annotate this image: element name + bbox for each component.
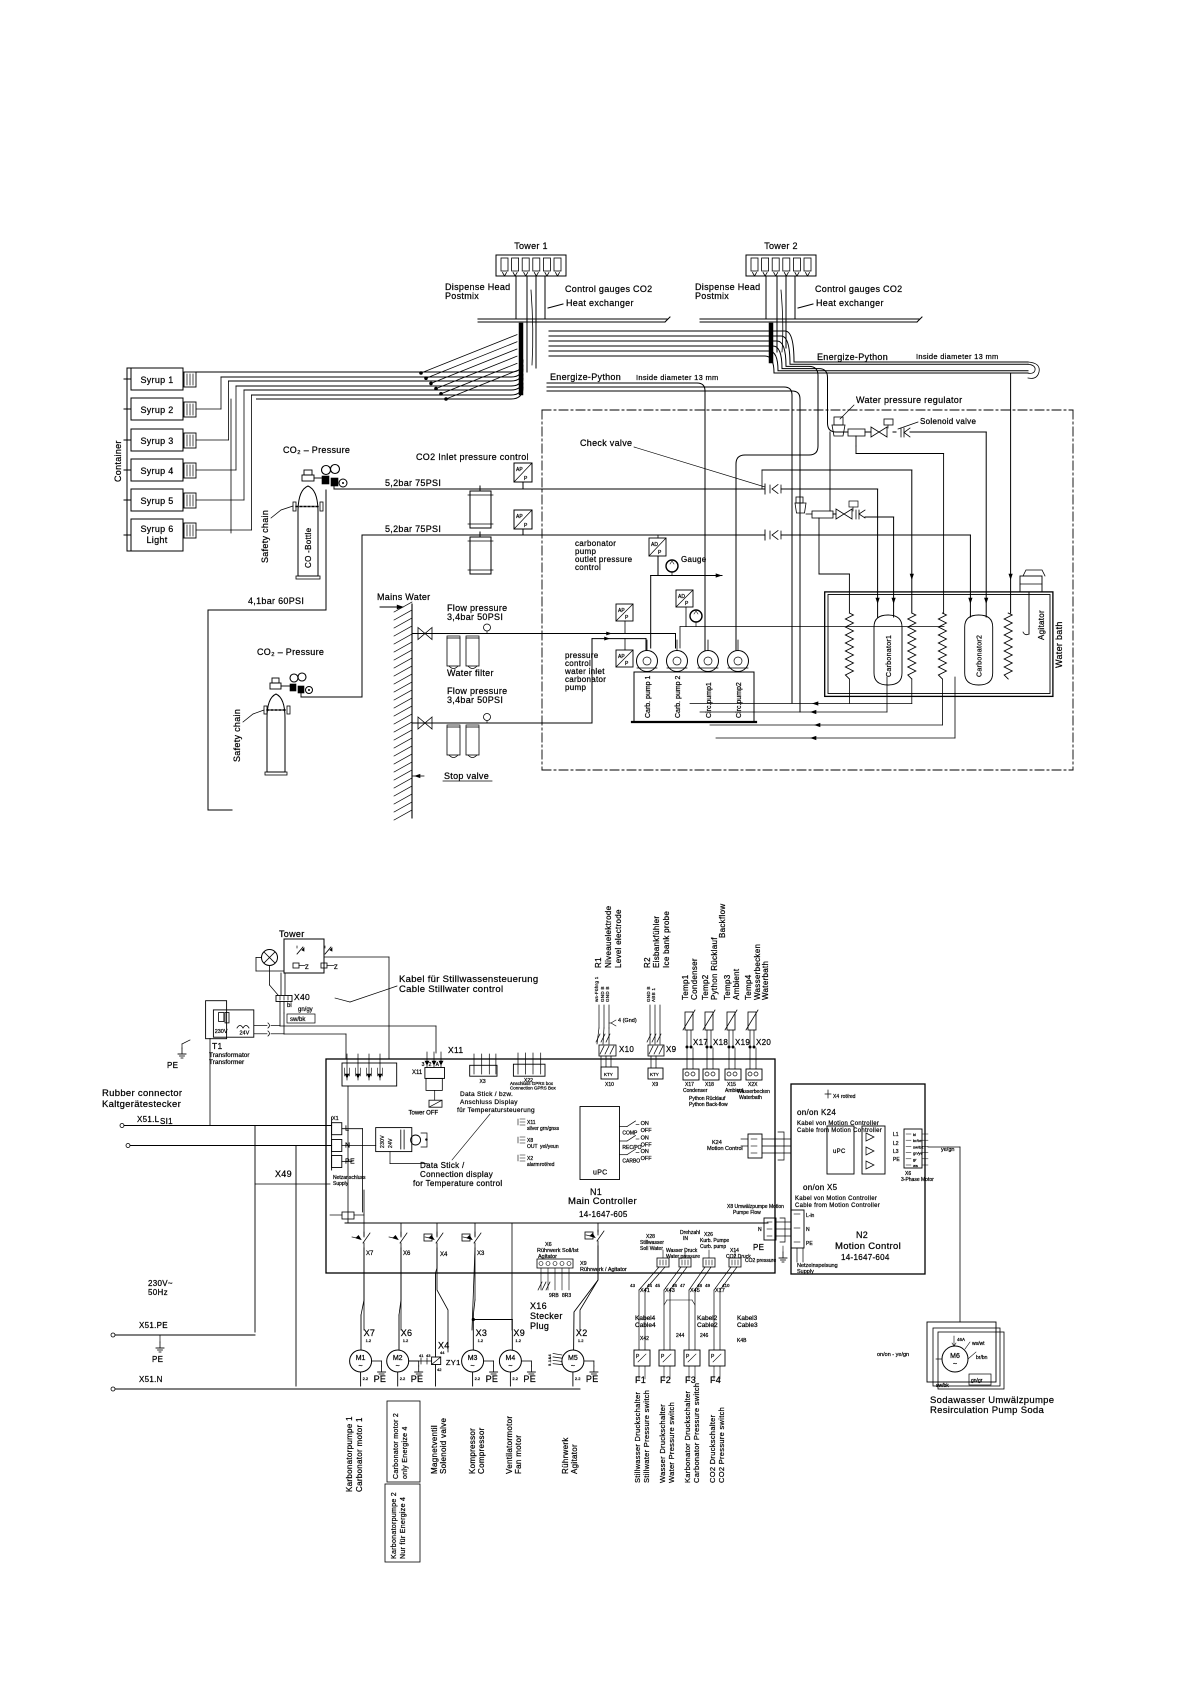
svg-text:Control gauges CO2: Control gauges CO2 (565, 284, 652, 294)
svg-text:Carb. pump 1: Carb. pump 1 (645, 675, 652, 718)
svg-text:Control gauges CO2: Control gauges CO2 (815, 284, 902, 294)
svg-text:KTY: KTY (650, 1072, 659, 1077)
svg-text:AD: AD (678, 594, 685, 600)
svg-text:ON: ON (641, 1121, 649, 1127)
svg-text:246: 246 (700, 1333, 709, 1339)
svg-text:X2X: X2X (748, 1082, 758, 1088)
svg-text:rot/red: rot/red (540, 1162, 555, 1168)
svg-text:4,1bar 60PSI: 4,1bar 60PSI (248, 596, 304, 606)
svg-text:~: ~ (571, 1363, 575, 1370)
svg-text:230V~: 230V~ (148, 1279, 173, 1288)
svg-text:1.2: 1.2 (403, 1338, 409, 1343)
svg-text:X17: X17 (693, 1038, 708, 1047)
svg-text:AP: AP (516, 467, 523, 473)
svg-text:Main Controller: Main Controller (568, 1196, 637, 1207)
svg-text:X51.L: X51.L (137, 1115, 160, 1124)
svg-text:M3: M3 (468, 1355, 478, 1362)
svg-text:Temp4: Temp4 (744, 974, 753, 1000)
svg-text:Supply: Supply (333, 1181, 349, 1187)
svg-text:ABB 1: ABB 1 (651, 988, 656, 1002)
svg-text:P: P (524, 476, 528, 482)
svg-text:Solenoid valve: Solenoid valve (439, 1418, 448, 1474)
svg-text:CO2 pressure: CO2 pressure (745, 1258, 776, 1264)
svg-text:L: L (345, 1126, 349, 1133)
svg-text:X42: X42 (640, 1336, 649, 1342)
svg-text:ye/gn: ye/gn (941, 1147, 954, 1153)
svg-text:AP: AP (618, 608, 625, 614)
svg-text:Gauge: Gauge (681, 555, 707, 564)
svg-text:Safety chain: Safety chain (232, 709, 242, 762)
svg-text:~: ~ (396, 1363, 400, 1370)
svg-text:Nur für Energize 4: Nur für Energize 4 (400, 1497, 407, 1559)
svg-text:Inside diameter 13 mm: Inside diameter 13 mm (636, 373, 719, 382)
svg-text:Kompressor: Kompressor (468, 1428, 477, 1474)
svg-text:gr: gr (913, 1157, 917, 1162)
svg-text:X45: X45 (690, 1288, 700, 1294)
svg-text:Syrup 3: Syrup 3 (140, 436, 173, 446)
svg-text:Agitator: Agitator (1037, 610, 1046, 640)
svg-text:X4: X4 (438, 1341, 450, 1351)
svg-text:X16: X16 (530, 1301, 547, 1311)
svg-text:Z: Z (305, 965, 309, 971)
svg-text:PE: PE (523, 1374, 536, 1384)
svg-text:L-in: L-in (806, 1213, 815, 1219)
svg-text:Kabel3: Kabel3 (737, 1315, 758, 1322)
svg-text:X6: X6 (403, 1251, 411, 1257)
svg-text:Data Stick / bzw.: Data Stick / bzw. (460, 1091, 513, 1098)
svg-text:X10: X10 (619, 1045, 634, 1054)
svg-text:X17: X17 (715, 1288, 725, 1294)
svg-text:X3: X3 (476, 1328, 488, 1338)
svg-text:Cable4: Cable4 (635, 1322, 656, 1329)
svg-text:Tower 2: Tower 2 (764, 241, 798, 251)
svg-text:P: P (658, 550, 662, 556)
svg-text:REC/PO: REC/PO (622, 1145, 641, 1151)
svg-text:9RB: 9RB (549, 1293, 559, 1299)
svg-text:M4: M4 (506, 1355, 516, 1362)
svg-text:yel/yeun: yel/yeun (540, 1144, 559, 1150)
svg-text:Condenser: Condenser (690, 958, 699, 1000)
svg-text:N: N (758, 1227, 762, 1233)
svg-text:GND B: GND B (605, 986, 610, 1002)
svg-text:Temp2: Temp2 (701, 974, 710, 1000)
svg-text:sw/bk: sw/bk (913, 1144, 923, 1149)
svg-text:X10: X10 (605, 1082, 614, 1088)
svg-text:Motion Control: Motion Control (707, 1146, 743, 1152)
svg-text:PE: PE (753, 1243, 764, 1252)
svg-text:Tower OFF: Tower OFF (409, 1111, 439, 1117)
svg-text:Water pressure: Water pressure (666, 1254, 700, 1260)
svg-text:3-Phase Motor: 3-Phase Motor (901, 1177, 934, 1183)
svg-text:ZY1: ZY1 (446, 1358, 461, 1367)
svg-text:2.2: 2.2 (363, 1376, 369, 1381)
svg-text:Agitator: Agitator (570, 1444, 579, 1474)
svg-text:PE: PE (411, 1374, 424, 1384)
svg-text:X40: X40 (294, 992, 310, 1002)
svg-text:Karbonator Druckschalter: Karbonator Druckschalter (683, 1391, 692, 1483)
svg-text:Circ.pump2: Circ.pump2 (736, 682, 743, 718)
svg-text:1.2: 1.2 (515, 1338, 521, 1343)
svg-text:Solenoid valve: Solenoid valve (920, 417, 976, 426)
svg-text:Syrup 5: Syrup 5 (140, 496, 173, 506)
svg-text:PE: PE (345, 1159, 355, 1166)
svg-text:R2: R2 (643, 957, 652, 968)
svg-text:T1: T1 (212, 1041, 223, 1051)
svg-text:X19: X19 (735, 1038, 750, 1047)
svg-text:Kaltgerätestecker: Kaltgerätestecker (102, 1099, 181, 1110)
svg-text:Waterbath: Waterbath (761, 961, 770, 1000)
svg-text:43: 43 (630, 1283, 636, 1288)
svg-text:230V: 230V (215, 1029, 228, 1035)
svg-text:X2: X2 (576, 1328, 588, 1338)
svg-text:M6: M6 (950, 1353, 960, 1360)
svg-text:Condenser: Condenser (683, 1088, 708, 1094)
svg-text:Carbonator Pressure switch: Carbonator Pressure switch (692, 1383, 701, 1483)
svg-text:R1: R1 (594, 957, 603, 968)
svg-text:X4: X4 (833, 1094, 839, 1100)
svg-text:Cable Stillwater control: Cable Stillwater control (399, 984, 503, 995)
svg-text:~: ~ (953, 1361, 957, 1368)
svg-text:ws: ws (913, 1163, 918, 1168)
svg-text:CO2 Pressure switch: CO2 Pressure switch (717, 1407, 726, 1483)
svg-text:X3: X3 (477, 1251, 485, 1257)
svg-text:Tower 1: Tower 1 (514, 241, 548, 251)
svg-text:~: ~ (508, 1363, 512, 1370)
svg-text:X11: X11 (448, 1045, 463, 1055)
svg-text:X7: X7 (364, 1328, 376, 1338)
svg-text:Supply: Supply (797, 1269, 814, 1275)
svg-text:gn/gy: gn/gy (298, 1007, 313, 1013)
svg-text:Connection display: Connection display (420, 1170, 493, 1179)
svg-text:Cable from Motion Controller: Cable from Motion Controller (795, 1203, 880, 1209)
svg-text:Syrup 6: Syrup 6 (140, 524, 173, 534)
svg-text:Anschluss Display: Anschluss Display (460, 1099, 518, 1106)
svg-text:2.2: 2.2 (400, 1376, 406, 1381)
svg-text:3,4bar 50PSI: 3,4bar 50PSI (447, 695, 503, 705)
svg-text:Mains Water: Mains Water (377, 592, 430, 602)
svg-text:Energize-Python: Energize-Python (550, 372, 621, 382)
svg-text:Connection GPRS Box: Connection GPRS Box (510, 1086, 557, 1091)
svg-text:X41: X41 (640, 1288, 650, 1294)
svg-text:PE: PE (586, 1374, 599, 1384)
svg-text:OFF: OFF (641, 1156, 653, 1162)
svg-text:Fan motor: Fan motor (514, 1435, 523, 1474)
svg-text:Cable3: Cable3 (737, 1322, 758, 1329)
svg-text:Ice bank probe: Ice bank probe (662, 911, 671, 968)
svg-text:P: P (685, 601, 689, 607)
svg-text:P: P (686, 1354, 690, 1360)
svg-text:N: N (345, 1143, 350, 1150)
svg-text:X3: X3 (480, 1079, 486, 1085)
svg-text:Stecker: Stecker (530, 1311, 563, 1321)
svg-text:2.2: 2.2 (575, 1376, 581, 1381)
svg-text:41: 41 (419, 1353, 424, 1358)
svg-text:P: P (661, 1354, 665, 1360)
svg-text:rot/red: rot/red (841, 1094, 856, 1100)
svg-text:9.1&4: 9.1&4 (547, 1354, 552, 1366)
svg-text:OFF: OFF (641, 1143, 653, 1149)
svg-text:4 (Gnd): 4 (Gnd) (618, 1018, 637, 1024)
svg-text:Kabel2: Kabel2 (697, 1315, 718, 1322)
svg-text:K4B: K4B (737, 1338, 747, 1344)
svg-text:Ambient: Ambient (732, 968, 741, 1000)
svg-text:X4: X4 (440, 1252, 448, 1258)
svg-text:PE: PE (152, 1355, 163, 1364)
svg-text:P: P (711, 1354, 715, 1360)
svg-text:Container: Container (113, 440, 123, 482)
svg-text:Transformator: Transformator (209, 1052, 250, 1059)
svg-text:1.2: 1.2 (366, 1338, 372, 1343)
svg-text:M5: M5 (568, 1355, 578, 1362)
svg-text:IN: IN (683, 1236, 688, 1242)
svg-text:1.2: 1.2 (478, 1338, 484, 1343)
svg-text:Plug: Plug (530, 1321, 549, 1331)
svg-text:Water pressure regulator: Water pressure regulator (856, 395, 962, 405)
svg-text:50Hz: 50Hz (148, 1288, 168, 1297)
svg-text:pump: pump (565, 683, 586, 692)
svg-text:Ventilatormotor: Ventilatormotor (505, 1416, 514, 1474)
svg-text:PE: PE (486, 1374, 499, 1384)
svg-text:sw/bk: sw/bk (290, 1017, 306, 1023)
svg-text:F1: F1 (635, 1375, 646, 1385)
svg-text:X51.PE: X51.PE (139, 1321, 168, 1330)
svg-text:X49: X49 (275, 1169, 292, 1179)
svg-text:ON: ON (641, 1136, 649, 1142)
svg-text:für Temperatursteuerung: für Temperatursteuerung (457, 1107, 535, 1114)
svg-text:Rubber connector: Rubber connector (102, 1088, 182, 1099)
svg-text:Resirculation Pump Soda: Resirculation Pump Soda (930, 1405, 1045, 1416)
svg-text:AP: AP (618, 654, 625, 660)
svg-text:X1: X1 (332, 1116, 339, 1122)
svg-text:2.2: 2.2 (475, 1376, 481, 1381)
svg-text:Level electrode: Level electrode (614, 909, 623, 968)
svg-text:Stop valve: Stop valve (444, 771, 489, 781)
svg-text:X43: X43 (665, 1288, 675, 1294)
svg-text:X18: X18 (705, 1082, 714, 1088)
svg-text:Energize-Python: Energize-Python (817, 352, 888, 362)
svg-text:Syrup 1: Syrup 1 (140, 375, 173, 385)
svg-text:N2: N2 (856, 1230, 868, 1240)
svg-text:Karbonatorpumpe 1: Karbonatorpumpe 1 (345, 1416, 354, 1492)
svg-text:CO2 Druckschalter: CO2 Druckschalter (708, 1414, 717, 1483)
svg-text:for Temperature control: for Temperature control (413, 1179, 502, 1188)
svg-text:Eisbankfühler: Eisbankfühler (652, 916, 661, 968)
svg-text:~: ~ (471, 1363, 475, 1370)
svg-text:ws-Führg 1: ws-Führg 1 (594, 976, 599, 1002)
svg-text:Cable2: Cable2 (697, 1322, 718, 1329)
svg-text:P: P (524, 523, 528, 529)
svg-text:3,4bar 50PSI: 3,4bar 50PSI (447, 612, 503, 622)
svg-text:L1: L1 (893, 1132, 899, 1138)
svg-text:sw/bk: sw/bk (936, 1383, 949, 1389)
svg-text:PE: PE (374, 1374, 387, 1384)
svg-text:Postmix: Postmix (445, 291, 479, 301)
svg-text:L3: L3 (893, 1149, 899, 1155)
svg-text:Safety chain: Safety chain (260, 510, 270, 563)
svg-text:Water filter: Water filter (447, 668, 494, 678)
svg-text:3: 3 (422, 1062, 425, 1068)
svg-text:CO2 Inlet pressure control: CO2 Inlet pressure control (416, 452, 529, 462)
svg-text:Carbonator motor 2: Carbonator motor 2 (393, 1413, 400, 1479)
svg-text:F4: F4 (710, 1375, 721, 1385)
svg-text:br/bn: br/bn (976, 1355, 988, 1361)
svg-text:X9: X9 (513, 1328, 525, 1338)
svg-text:14-1647-604: 14-1647-604 (841, 1253, 890, 1262)
svg-text:Carbonator2: Carbonator2 (977, 635, 984, 677)
svg-text:2.2: 2.2 (512, 1376, 518, 1381)
svg-text:M1: M1 (356, 1355, 366, 1362)
svg-text:Waterbath: Waterbath (739, 1095, 762, 1101)
svg-text:Kabel4: Kabel4 (635, 1315, 656, 1322)
svg-text:Syrup 4: Syrup 4 (140, 466, 173, 476)
svg-text:Z: Z (334, 965, 338, 971)
svg-text:P: P (625, 615, 629, 621)
svg-text:CO₂ – Pressure: CO₂ – Pressure (283, 445, 350, 455)
svg-text:X11: X11 (412, 1070, 423, 1076)
svg-text:CO -Bottle: CO -Bottle (304, 527, 313, 568)
svg-text:Carbonator1: Carbonator1 (886, 635, 893, 677)
svg-text:uPC: uPC (593, 1170, 608, 1177)
svg-text:X9: X9 (666, 1045, 677, 1054)
svg-text:KTY: KTY (604, 1072, 613, 1077)
svg-text:24V: 24V (388, 1138, 394, 1148)
svg-text:Temp1: Temp1 (681, 974, 690, 1000)
svg-text:ON: ON (641, 1149, 649, 1155)
svg-text:Compressor: Compressor (477, 1427, 486, 1474)
svg-text:on/on - ye/gn: on/on - ye/gn (877, 1352, 909, 1358)
svg-text:X20: X20 (756, 1038, 771, 1047)
svg-text:Karbonatorpumpe 2: Karbonatorpumpe 2 (391, 1492, 398, 1559)
svg-text:control: control (575, 563, 601, 572)
svg-text:24V: 24V (240, 1031, 250, 1037)
svg-text:Curb. pump: Curb. pump (700, 1244, 726, 1250)
svg-text:Rührwerk / Agitator: Rührwerk / Agitator (580, 1267, 627, 1273)
svg-text:49: 49 (705, 1283, 711, 1288)
svg-text:Postmix: Postmix (695, 291, 729, 301)
svg-text:L2: L2 (893, 1141, 899, 1147)
svg-text:Cable from Motion Controller: Cable from Motion Controller (797, 1128, 882, 1134)
svg-text:Rührwerk: Rührwerk (561, 1437, 570, 1474)
svg-text:br/bn: br/bn (913, 1138, 922, 1143)
svg-text:14-1647-605: 14-1647-605 (579, 1210, 628, 1219)
svg-text:Temp3: Temp3 (723, 974, 732, 1000)
svg-text:42: 42 (437, 1367, 442, 1372)
svg-text:on/on X5: on/on X5 (803, 1183, 838, 1192)
svg-text:1.2: 1.2 (578, 1338, 584, 1343)
svg-text:Tower: Tower (279, 929, 305, 939)
svg-text:Niveauelektrode: Niveauelektrode (604, 905, 613, 968)
svg-text:on/on K24: on/on K24 (797, 1108, 836, 1117)
svg-text:Magnetventil: Magnetventil (430, 1425, 439, 1474)
svg-text:F2: F2 (660, 1375, 671, 1385)
svg-text:PE: PE (893, 1157, 900, 1163)
svg-text:Data Stick /: Data Stick / (420, 1161, 465, 1170)
svg-text:Check valve: Check valve (580, 438, 632, 448)
svg-text:Light: Light (146, 535, 167, 545)
svg-text:X18: X18 (713, 1038, 728, 1047)
svg-text:N: N (806, 1227, 810, 1233)
svg-text:Heat exchanger: Heat exchanger (816, 298, 884, 308)
svg-text:X9: X9 (652, 1082, 658, 1088)
svg-text:gn/ye: gn/ye (913, 1151, 924, 1156)
svg-text:gn/gr: gn/gr (971, 1378, 983, 1384)
svg-text:Water Pressure switch: Water Pressure switch (667, 1402, 676, 1483)
svg-text:Backflow: Backflow (718, 904, 727, 938)
svg-text:Python Back-flow: Python Back-flow (689, 1102, 728, 1108)
svg-text:X6: X6 (401, 1328, 413, 1338)
svg-text:OFF: OFF (641, 1128, 653, 1134)
svg-text:CO₂ – Pressure: CO₂ – Pressure (257, 647, 324, 657)
svg-text:47: 47 (680, 1283, 686, 1288)
svg-text:230V: 230V (380, 1135, 386, 1148)
svg-text:Soll Water: Soll Water (640, 1246, 663, 1252)
svg-text:Stillwater Pressure switch: Stillwater Pressure switch (642, 1390, 651, 1483)
svg-text:Transformer: Transformer (209, 1059, 245, 1066)
svg-text:Syrup 2: Syrup 2 (140, 405, 173, 415)
svg-text:PE: PE (167, 1061, 178, 1070)
svg-text:43: 43 (426, 1353, 431, 1358)
svg-text:bl: bl (913, 1132, 916, 1137)
svg-text:46A: 46A (957, 1337, 965, 1342)
svg-text:only Energize 4: only Energize 4 (402, 1426, 409, 1479)
svg-text:SI1: SI1 (160, 1117, 173, 1126)
svg-text:244: 244 (676, 1333, 685, 1339)
svg-text:M2: M2 (393, 1355, 403, 1362)
svg-text:silver: silver (527, 1126, 539, 1132)
svg-text:grn/gnss: grn/gnss (540, 1126, 560, 1132)
svg-text:AD: AD (651, 542, 658, 548)
svg-text:OUT: OUT (527, 1144, 538, 1150)
svg-text:Pumpe Flow: Pumpe Flow (733, 1210, 761, 1216)
svg-text:uPC: uPC (833, 1149, 846, 1155)
svg-text:Motion Control: Motion Control (835, 1241, 901, 1252)
svg-text:Stillwasser Druckschalter: Stillwasser Druckschalter (633, 1392, 642, 1483)
svg-text:ws/wt: ws/wt (972, 1341, 985, 1347)
svg-text:CARBO: CARBO (622, 1159, 640, 1165)
svg-text:Heat exchanger: Heat exchanger (566, 298, 634, 308)
svg-text:44: 44 (440, 1350, 445, 1355)
svg-text:Inside diameter 13 mm: Inside diameter 13 mm (916, 352, 999, 361)
svg-text:Carb. pump 2: Carb. pump 2 (675, 675, 682, 718)
svg-text:X51.N: X51.N (139, 1375, 163, 1384)
svg-text:bl: bl (287, 1003, 292, 1009)
svg-text:Water bath: Water bath (1054, 621, 1064, 668)
svg-text:X7: X7 (366, 1251, 374, 1257)
svg-text:45: 45 (655, 1283, 661, 1288)
svg-text:AP: AP (516, 514, 523, 520)
svg-text:Wasser Druckschalter: Wasser Druckschalter (658, 1404, 667, 1483)
svg-text:Carbonator motor 1: Carbonator motor 1 (355, 1417, 364, 1492)
svg-text:8R3: 8R3 (562, 1293, 571, 1299)
svg-text:PE: PE (806, 1241, 813, 1247)
svg-text:Python Rücklauf: Python Rücklauf (710, 937, 719, 1000)
svg-text:Circ.pump1: Circ.pump1 (706, 682, 713, 718)
svg-text:Kabel von Motion Controller: Kabel von Motion Controller (795, 1196, 877, 1202)
svg-text:P: P (636, 1354, 640, 1360)
svg-text:alarm: alarm (527, 1162, 540, 1168)
svg-text:5,2bar 75PSI: 5,2bar 75PSI (385, 524, 441, 534)
svg-text:5,2bar 75PSI: 5,2bar 75PSI (385, 478, 441, 488)
svg-text:P: P (625, 661, 629, 667)
svg-text:~: ~ (359, 1363, 363, 1370)
